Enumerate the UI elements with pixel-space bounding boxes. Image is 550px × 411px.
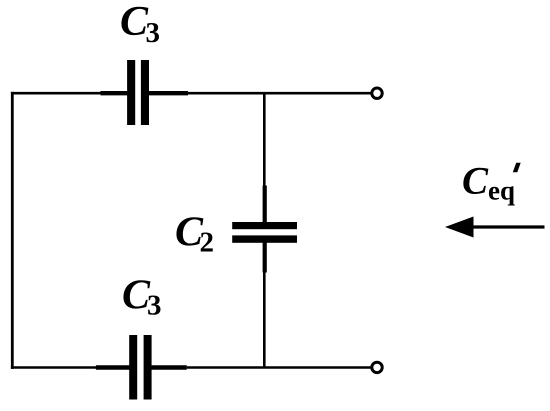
wire: middle vertical branch lower thin segment xyxy=(263,272,266,368)
capacitor C2 top plate xyxy=(232,222,297,229)
capacitor C3 (top) left lead xyxy=(101,91,128,95)
wire: middle vertical branch upper thin segment xyxy=(263,93,266,186)
capacitor C3 (bottom) right lead xyxy=(151,365,187,369)
capacitor C3 (bottom) right plate xyxy=(144,335,152,400)
wire: bottom rail thin left segment xyxy=(11,366,97,369)
wire: bottom rail thin right segment to terminal xyxy=(187,366,372,369)
capacitor C2 bottom lead xyxy=(263,243,267,273)
wire: top rail thin right segment to terminal xyxy=(188,92,372,95)
svg-text:C: C xyxy=(462,160,489,203)
wire: top rail thin left segment xyxy=(11,92,102,95)
capacitor C3 (top) right plate xyxy=(141,60,149,125)
wire: left vertical bus xyxy=(11,92,14,369)
capacitor C3 (top) right lead xyxy=(149,91,189,95)
capacitor C3 (top) left plate xyxy=(127,60,135,125)
capacitor C2 bottom plate xyxy=(232,235,297,242)
svg-text:eq: eq xyxy=(488,176,515,206)
node: bottom-right open terminal xyxy=(372,362,382,372)
capacitor C3 (bottom) left lead xyxy=(96,365,130,369)
svg-text:3: 3 xyxy=(146,17,161,49)
node: top-right open terminal xyxy=(372,88,382,98)
capacitor C3 (bottom) left plate xyxy=(129,335,137,400)
svg-text:3: 3 xyxy=(147,289,162,321)
label Ceq' prime mark xyxy=(513,163,521,173)
arrow Ceq' (pointing left) shaft xyxy=(470,225,545,228)
arrow Ceq' head xyxy=(445,217,474,238)
capacitor C2 top lead xyxy=(263,186,267,223)
svg-text:2: 2 xyxy=(200,227,215,259)
